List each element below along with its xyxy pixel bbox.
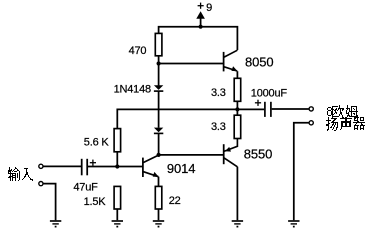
label 8欧姆 (pixel glyphs) — [327, 105, 358, 119]
ground 1.5K — [112, 221, 123, 227]
svg-text:8550: 8550 — [244, 147, 273, 162]
capacitor 47uF — [82, 159, 88, 176]
wire cap 1000uF to speaker terminal — [272, 108, 309, 110]
ground 22 — [153, 221, 164, 227]
terminal speaker 1 — [309, 107, 313, 111]
ground 8550 — [232, 221, 243, 227]
terminal input 1 — [39, 164, 43, 168]
power +9 stem — [200, 18, 202, 27]
wire mid rail — [117, 109, 264, 128]
transistor Q 9014 bar — [142, 158, 144, 177]
power +9 arrowhead — [196, 11, 205, 19]
terminal speaker 2 — [309, 121, 313, 125]
wire input to cap — [43, 165, 81, 167]
junction mid rail / 3.3 resistors — [235, 107, 239, 111]
transistor 9014 emitter arrowhead — [153, 172, 159, 177]
resistor 5.6K — [114, 129, 121, 152]
svg-text:9: 9 — [206, 2, 212, 14]
svg-text:1.5K: 1.5K — [84, 196, 107, 208]
power +9 plus sign — [198, 3, 204, 9]
label 扬声器 (pixel glyphs) — [326, 117, 365, 131]
transistor 9014 emitter — [143, 172, 158, 177]
transistor 9014 collector — [143, 155, 158, 162]
wire 5.6K bottom — [116, 152, 118, 167]
svg-text:5.6 K: 5.6 K — [84, 136, 110, 148]
resistor 1.5K — [114, 186, 121, 209]
wire 3.3 upper to junction — [236, 101, 238, 115]
label 输入 (pixel glyphs) — [8, 167, 33, 181]
wire top rail — [159, 27, 238, 50]
transistor 8550 collector — [224, 158, 237, 167]
svg-text:8050: 8050 — [245, 55, 274, 70]
svg-text:1N4148: 1N4148 — [114, 83, 151, 95]
wire 8550 collector to ground — [236, 167, 238, 221]
svg-text:47uF: 47uF — [73, 181, 98, 193]
resistor 470 — [155, 33, 162, 55]
junction node C (9014 collector / diode / base 8550) — [157, 153, 161, 157]
transistor 8050 emitter — [224, 67, 237, 71]
wire input2 to ground — [43, 184, 55, 221]
svg-text:3.3: 3.3 — [211, 87, 226, 99]
wire base 8050 — [159, 63, 223, 65]
diode D2 1N4148 — [154, 128, 163, 134]
capacitor 47uF plus sign — [90, 160, 96, 166]
transistor 8550 emitter arrowhead (PNP, points to bar) — [225, 147, 231, 152]
transistor Q 8050 bar — [223, 52, 225, 72]
wire 1.5K to ground — [116, 209, 118, 220]
junction +9 on top rail — [199, 25, 203, 29]
transistor Q 8550 bar — [223, 144, 225, 164]
capacitor 1000uF plus sign — [255, 100, 261, 106]
wire diode2 to node C — [158, 133, 160, 155]
wire 8050 emitter to 3.3 — [236, 71, 238, 78]
wire diode1 to diode2 — [158, 91, 160, 128]
wire speaker2 to ground — [294, 123, 309, 220]
wire base 8550 — [159, 154, 223, 156]
junction 5.6K/1.5K/base — [115, 164, 119, 168]
junction 470/diode/base-8050 — [157, 61, 161, 65]
transistor 8050 collector — [224, 50, 237, 57]
wire cap to base 9014 — [88, 166, 143, 168]
svg-text:1000uF: 1000uF — [251, 88, 288, 100]
svg-text:470: 470 — [129, 45, 147, 57]
svg-text:3.3: 3.3 — [211, 121, 226, 133]
capacitor 1000uF — [265, 102, 271, 117]
wire 470 bottom — [158, 56, 160, 86]
wire 3.3 lower to 8550 emitter — [224, 139, 238, 152]
ground input — [50, 221, 61, 227]
svg-text:9014: 9014 — [167, 161, 196, 176]
resistor 22 — [155, 186, 162, 209]
wire 9014 emitter to 22 — [158, 177, 160, 187]
diode D1 1N4148 — [154, 85, 163, 91]
resistor 3.3 upper — [234, 78, 241, 101]
ground speaker — [288, 221, 299, 227]
terminal input 2 — [39, 182, 43, 186]
resistor 3.3 lower — [234, 115, 241, 138]
wire 22 to ground — [158, 209, 160, 220]
svg-text:22: 22 — [169, 195, 181, 207]
transistor 8050 emitter arrowhead — [231, 66, 237, 71]
